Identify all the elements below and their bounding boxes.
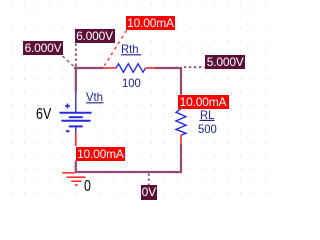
battery V1 positive stub [75, 93, 77, 113]
battery V1 plate (short, bottom) [69, 125, 83, 127]
probe leader dotted line from voltage label 5.000V (node B) [184, 66, 205, 68]
current probe arrow segment on wire (below battery) [75, 133, 77, 146]
voltage probe label 5.000V (node B) [205, 55, 245, 69]
battery V1 plate (long) [62, 120, 91, 122]
battery V1 plate (long, top) [60, 112, 92, 114]
ground symbol (red) [62, 173, 85, 185]
wire: RL bottom to corner and along bottom net [76, 144, 181, 172]
current probe arrow segment on wire (left of Rth) [104, 67, 116, 69]
resistor RL reference designator [200, 109, 214, 121]
battery plus sign [65, 104, 70, 109]
resistor Rth label underline [121, 54, 141, 56]
current probe label 10.00mA (battery branch) [76, 147, 126, 161]
probe leader dotted line from voltage label 6.000V (node A, top) [75, 44, 77, 67]
voltage probe label 0V (ground net) [141, 185, 157, 200]
battery minus sign [66, 130, 69, 132]
battery value 6V [36, 107, 51, 123]
probe leader dashed line from voltage label 6.000V (node A, left) [63, 56, 75, 67]
battery V1 plate (short) [69, 116, 83, 118]
ground node 0 [84, 179, 91, 195]
probe leader dotted line from voltage label 0V (bottom net) [148, 174, 150, 186]
resistor RL bottom pin (red) [180, 135, 182, 144]
current probe label 10.00mA (top) [126, 16, 175, 30]
resistor RL value 500 [198, 123, 217, 135]
source Vth reference designator [86, 91, 103, 103]
resistor RL label underline [200, 119, 215, 121]
resistor Rth reference designator [121, 43, 139, 55]
current probe label 10.00mA (RL branch) [178, 95, 229, 109]
resistor Rth value 100 [122, 77, 141, 89]
wire: bottom-left corner up to battery negative [75, 161, 77, 172]
probe leader dashed line from current label 10.00mA (top) [105, 31, 127, 66]
source Vth label underline [86, 102, 104, 104]
wire: Rth to node B corner down to RL [155, 68, 182, 95]
battery V1 negative stub [75, 126, 77, 133]
resistor Rth zigzag [116, 64, 146, 72]
resistor RL zigzag [176, 107, 186, 135]
node A junction dot [74, 66, 78, 70]
voltage probe label 6.000V (left) [23, 41, 63, 55]
voltage probe label 6.000V (top) [75, 29, 115, 43]
resistor Rth right pin (red) [146, 67, 155, 69]
wire: battery positive terminal up to node A and right [76, 68, 104, 93]
